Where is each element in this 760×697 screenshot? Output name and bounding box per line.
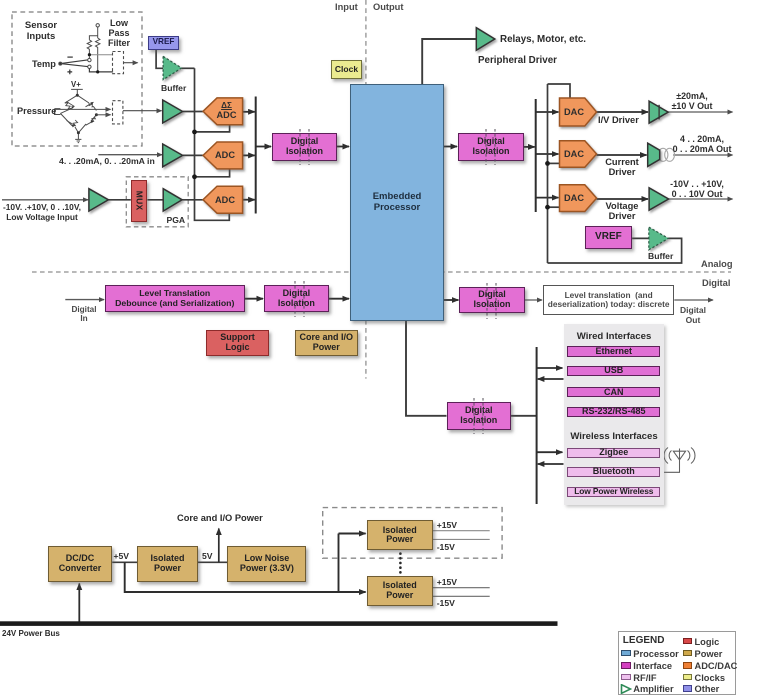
label -15V top bbox=[437, 542, 455, 552]
wire buffer output to vref rail bbox=[182, 67, 195, 69]
legend swatch power bbox=[683, 650, 693, 656]
DAC2 label bbox=[560, 149, 588, 159]
vref distribution rail left bbox=[195, 68, 230, 220]
legend swatch adc/dac bbox=[683, 662, 693, 668]
wire processor to relays driver bbox=[422, 39, 476, 84]
label row3 output bbox=[661, 179, 733, 199]
label row2 output bbox=[666, 134, 738, 154]
wire DI3 to interface bus bbox=[511, 415, 537, 417]
legend swatch other bbox=[683, 685, 693, 691]
arrow into isolated power top bbox=[339, 533, 366, 535]
thin arrow low voltage input row D bbox=[2, 199, 88, 201]
legend swatch logic bbox=[683, 638, 693, 644]
label 24V Power Bus bbox=[2, 629, 60, 638]
USB bar bbox=[567, 366, 660, 376]
label Temp bbox=[32, 59, 56, 69]
label Buffer right bbox=[648, 251, 673, 261]
thin arrow DI to discrete box bbox=[525, 299, 542, 301]
junction dot rail row B bbox=[192, 130, 197, 135]
isolation barrier dashes DI1 bbox=[290, 129, 320, 165]
wire PGA to ADC3 bbox=[182, 199, 203, 201]
Bluetooth bar bbox=[567, 467, 660, 477]
wireless interfaces title bbox=[564, 431, 665, 442]
arrow level translation to DI digital bbox=[245, 298, 264, 300]
discrete level translation white box bbox=[543, 285, 674, 315]
vref ref stub into DAC2 bbox=[548, 162, 560, 164]
label Digital Out bbox=[671, 305, 715, 325]
wired interfaces title bbox=[564, 331, 665, 342]
thin arrow digital in bbox=[65, 299, 104, 301]
thin line pressure tap upper bbox=[55, 108, 111, 110]
label +5V bbox=[114, 551, 130, 561]
arrow into isolated power bottom bbox=[339, 591, 366, 593]
label Current Driver bbox=[600, 157, 644, 177]
amplifier buffer left dashed bbox=[163, 56, 181, 79]
thin arrow digital out bbox=[674, 299, 713, 301]
thin arrow temp output bbox=[124, 62, 138, 64]
ADC3 pentagon bbox=[203, 186, 243, 213]
Digital Isolation digital left bbox=[264, 285, 329, 312]
legend swatch rf/if bbox=[621, 674, 631, 680]
arrow DI digital to processor bbox=[329, 298, 349, 300]
thin arrow pressure output bbox=[123, 110, 162, 112]
thin arrow current driver output bbox=[673, 154, 732, 156]
amplifier buffer right dashed bbox=[649, 227, 669, 250]
legend swatch processor bbox=[621, 650, 631, 656]
label IV Driver bbox=[598, 115, 639, 125]
zone divider horizontal dashed Analog/Digital bbox=[32, 271, 731, 273]
wire VREF2 box to right buffer bbox=[632, 237, 649, 239]
label Digital In bbox=[62, 305, 106, 323]
arrow ADC1 output to bus bbox=[243, 111, 255, 113]
wire VREF1 to buffer input bbox=[156, 50, 163, 69]
label Input bbox=[335, 2, 358, 12]
thin arrow IV driver output bbox=[668, 111, 732, 113]
Digital Isolation box 3 bbox=[447, 402, 512, 430]
vref ref stub into DAC3 bbox=[548, 206, 560, 208]
legend swatch clocks bbox=[683, 674, 693, 680]
arrow ADC2 output to bus bbox=[243, 154, 255, 156]
pressure filter dashed bracket bbox=[113, 101, 123, 124]
MUX box bbox=[131, 180, 148, 222]
thin line pressure tap lower bbox=[96, 114, 110, 116]
+15V -15V lines isolated power top bbox=[433, 531, 490, 540]
Embedded Processor box bbox=[350, 84, 444, 321]
Isolated Power box main bbox=[137, 546, 198, 582]
isolation barrier dashes DI digital left bbox=[285, 281, 315, 317]
junction dot rail row C bbox=[192, 174, 197, 179]
arrow bus to wireless interfaces bbox=[537, 451, 563, 453]
wire amp C to ADC2 bbox=[183, 154, 204, 156]
temp sensor schematic bbox=[59, 24, 113, 75]
Digital Isolation box 1 bbox=[272, 133, 337, 161]
wire isolated power to low noise bbox=[198, 561, 228, 563]
arrow wireless interfaces to bus bbox=[538, 463, 564, 465]
+15V -15V lines isolated power bottom bbox=[433, 588, 490, 597]
wire processor bottom to DI3 bbox=[406, 321, 447, 416]
VREF box right bbox=[585, 226, 632, 249]
label Sensor Inputs bbox=[17, 20, 65, 42]
transformer coil current driver bbox=[658, 148, 674, 161]
junction dot vref rail DAC3 bbox=[545, 205, 550, 210]
vref loop bottom wire from right buffer bbox=[548, 238, 682, 263]
label +15V top bbox=[437, 520, 457, 530]
arrow ADC3 output to bus bbox=[243, 199, 255, 201]
thin arrow 4-20mA input row C bbox=[98, 154, 162, 156]
MUX/PGA dashed box bbox=[126, 177, 188, 227]
amplifier voltage driver bbox=[649, 188, 669, 210]
arrow bus to DAC2 bbox=[536, 153, 559, 155]
label Relays Motor bbox=[500, 34, 586, 45]
wire delta-sigma ADC ref stub bbox=[195, 125, 230, 132]
DAC1 pentagon bbox=[560, 98, 597, 126]
label +15V bottom bbox=[437, 577, 457, 587]
arrow DAC3 to voltage driver bbox=[597, 198, 648, 200]
label V+ bbox=[71, 80, 81, 89]
label Digital bbox=[702, 278, 730, 288]
Low Noise Power box bbox=[227, 546, 306, 582]
wire 5V distribution down and right bbox=[125, 562, 340, 592]
arrow bus to DAC1 bbox=[536, 111, 559, 113]
ADC2 pentagon bbox=[203, 142, 243, 169]
label row1 output bbox=[662, 91, 722, 111]
label 5V bbox=[202, 551, 213, 561]
thin arrow voltage driver output bbox=[669, 198, 733, 200]
dotted continuation between isolated power units bbox=[399, 554, 402, 574]
Low Power Wireless bar bbox=[567, 487, 660, 497]
VREF box left bbox=[148, 36, 179, 50]
pressure bridge schematic bbox=[55, 89, 98, 142]
Digital Isolation digital right bbox=[459, 287, 524, 313]
label Core and IO Power bottom bbox=[177, 513, 263, 523]
DAC1 label bbox=[560, 107, 588, 117]
label Voltage Driver bbox=[600, 201, 644, 221]
24V power bus bar bbox=[0, 621, 558, 626]
Digital Isolation analog right bbox=[458, 133, 524, 161]
CAN bar bbox=[567, 387, 660, 397]
label Pressure bbox=[17, 106, 56, 116]
DAC3 pentagon bbox=[560, 185, 597, 212]
Clock box bbox=[331, 60, 362, 80]
arrow processor to DI digital right bbox=[444, 299, 458, 301]
arrow bus to DAC3 bbox=[536, 197, 559, 199]
label Low Pass Filter bbox=[103, 18, 135, 48]
amplifier current driver bbox=[648, 143, 660, 166]
DAC3 label bbox=[560, 193, 588, 203]
Core and IO Power box bbox=[295, 330, 358, 356]
DAC input bus vertical bbox=[535, 99, 537, 212]
wire 24V bus to DC/DC bbox=[78, 584, 80, 622]
label Analog bbox=[701, 259, 733, 269]
legend swatch interface bbox=[621, 662, 631, 668]
label low voltage input bbox=[0, 202, 84, 222]
legend swatch amplifier bbox=[620, 684, 632, 694]
interface bus vertical bbox=[536, 347, 538, 504]
legend box bbox=[618, 631, 736, 695]
Level Translation box bbox=[105, 285, 245, 312]
power dashed box bbox=[323, 508, 502, 559]
wire amp D to MUX bbox=[108, 199, 130, 201]
legend title bbox=[623, 635, 665, 646]
label Buffer left bbox=[161, 83, 186, 93]
vref rail right vertical bbox=[547, 84, 549, 263]
ADC1 label bbox=[210, 101, 243, 120]
vref rail top bracket into DAC1 bbox=[548, 84, 571, 98]
arrow bus to wired interfaces bbox=[537, 367, 563, 369]
isolation barrier dashes DI analog right bbox=[476, 129, 506, 165]
label Output bbox=[373, 2, 403, 12]
arrow DAC1 to IV driver bbox=[597, 111, 648, 113]
amplifier row C bbox=[163, 144, 183, 167]
DC/DC converter box bbox=[48, 546, 112, 582]
Zigbee bar bbox=[567, 448, 660, 458]
zone divider vertical dashed Input/Output bbox=[365, 0, 367, 379]
arrow core io power label bbox=[218, 529, 220, 563]
wire amp B to ADC1 bbox=[183, 111, 204, 113]
ADC1 delta sigma pentagon bbox=[203, 98, 243, 125]
DAC2 pentagon bbox=[560, 141, 597, 168]
amplifier row D input bbox=[89, 189, 109, 211]
arrow DI analog right to DAC bus bbox=[524, 146, 535, 148]
arrow processor to DI analog right bbox=[444, 146, 457, 148]
amplifier row B bbox=[163, 100, 183, 123]
wire MUX to PGA bbox=[147, 199, 163, 201]
sensor inputs dashed box bbox=[12, 12, 142, 146]
junction dot vref rail DAC2 bbox=[545, 161, 550, 166]
arrow bus to digital isolation 1 bbox=[256, 146, 271, 148]
branch up to isolated power top bbox=[338, 534, 340, 593]
interfaces gray panel bbox=[564, 324, 665, 505]
isolation barrier dashes DI digital right bbox=[477, 283, 507, 319]
amplifier triangle relays driver bbox=[476, 28, 495, 51]
wire DC/DC to isolated power bbox=[112, 561, 137, 563]
amplifier IV driver bbox=[649, 101, 668, 123]
wire ADC2 ref stub bbox=[195, 169, 230, 177]
Isolated Power top box bbox=[367, 520, 433, 550]
amplifier PGA bbox=[163, 189, 182, 211]
label 4..20mA in bbox=[59, 156, 155, 166]
RS-232/RS-485 bar bbox=[567, 407, 660, 417]
antenna symbol bbox=[661, 448, 696, 473]
arrow digital isolation 1 to processor bbox=[337, 146, 349, 148]
label PGA bbox=[167, 215, 186, 225]
Ethernet bar bbox=[567, 346, 660, 356]
ADC3 label bbox=[207, 195, 243, 205]
Isolated Power bottom box bbox=[367, 576, 433, 607]
ADC output bus vertical bbox=[255, 97, 257, 214]
isolation barrier dashes DI3 bbox=[464, 398, 494, 434]
ADC2 label bbox=[207, 150, 243, 160]
label Peripheral Driver bbox=[478, 55, 557, 66]
Support Logic box bbox=[206, 330, 269, 356]
arrow DAC2 to current driver bbox=[597, 154, 647, 156]
label -15V bottom bbox=[437, 598, 455, 608]
temp low pass filter dashed bracket bbox=[113, 52, 124, 74]
arrow wired interfaces to bus bbox=[538, 378, 564, 380]
